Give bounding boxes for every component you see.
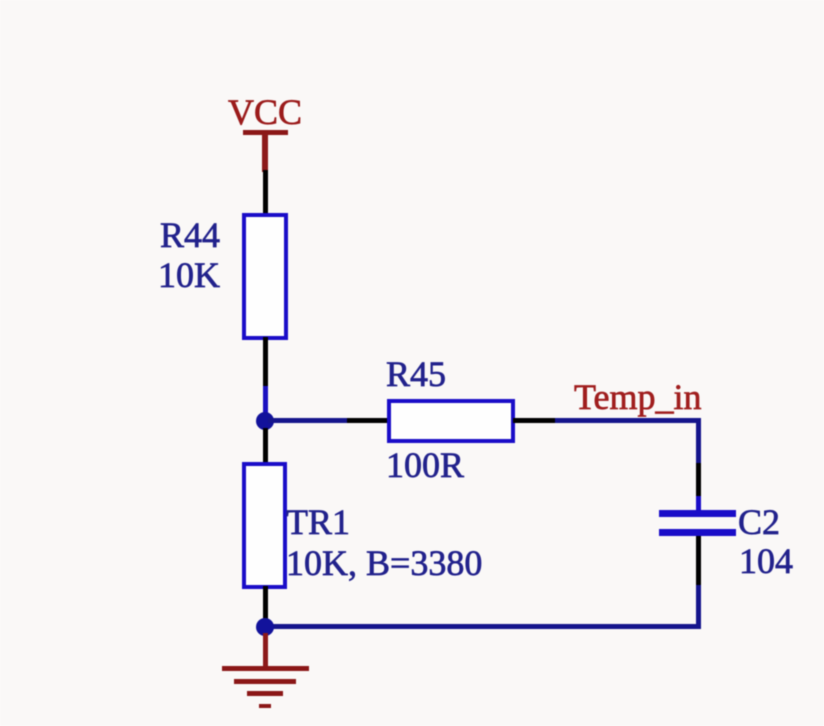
net label VCC bbox=[228, 94, 302, 130]
thermistor TR1 body bbox=[242, 462, 287, 589]
power symbol VCC stem bbox=[262, 134, 268, 172]
value label 10K (R44) bbox=[158, 257, 220, 293]
ground bar 3 bbox=[247, 691, 283, 696]
label R45 bbox=[386, 356, 446, 392]
wire node A to TR1 pin 1 (black) bbox=[263, 428, 268, 463]
power symbol VCC bar bbox=[243, 130, 288, 135]
wire corner down to C2 (blue part) bbox=[696, 418, 701, 463]
capacitor C2 bottom plate bbox=[659, 529, 736, 536]
node A junction dot bbox=[256, 412, 274, 430]
ground bar 2 bbox=[234, 679, 296, 684]
wire TR1 pin 2 to node B (black) bbox=[263, 586, 268, 620]
wire C2 to bottom corner (blue) bbox=[696, 585, 701, 629]
net label Temp_in bbox=[574, 379, 701, 415]
wire to C2 pin 1 (black part) bbox=[696, 463, 701, 496]
value label 10K, B=3380 (TR1) bbox=[286, 545, 482, 581]
label C2 bbox=[738, 504, 780, 540]
resistor R44 body bbox=[242, 213, 288, 340]
value label 104 (C2) bbox=[739, 543, 793, 579]
wire VCC to R44 pin 1 bbox=[263, 170, 268, 215]
wire C2 pin 2 (black part) bbox=[696, 536, 701, 585]
label TR1 bbox=[286, 504, 350, 540]
wire bottom node B to corner (blue) bbox=[265, 624, 701, 629]
wire node A to R45 (blue part) bbox=[268, 418, 347, 423]
wire R44 pin 2 to node A (blue wire part) bbox=[263, 386, 268, 416]
value label 100R (R45) bbox=[386, 447, 464, 483]
C2 pin 1 stub (blue) bbox=[696, 496, 701, 512]
wire node A to R45 (black pin 1 of R45) bbox=[347, 418, 389, 423]
wire R44 pin 2 to node A (black pin part) bbox=[263, 337, 268, 386]
capacitor C2 top plate bbox=[659, 510, 736, 517]
ground bar 4 bbox=[259, 704, 271, 708]
label R44 bbox=[160, 217, 220, 253]
ground bar 1 bbox=[222, 666, 309, 671]
ground stem (dark red) bbox=[263, 633, 268, 667]
wire R45 to corner (blue) bbox=[555, 418, 701, 423]
resistor R45 body bbox=[387, 399, 515, 443]
wire R45 pin 2 (black pin part) bbox=[513, 418, 555, 423]
node B junction dot bbox=[256, 618, 274, 636]
